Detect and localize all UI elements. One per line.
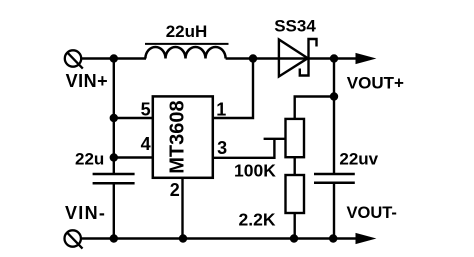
svg-text:22uH: 22uH <box>166 22 208 41</box>
junction pin4 <box>110 153 118 161</box>
junction B (SW node) <box>249 54 257 62</box>
wire pin 5 <box>114 117 153 119</box>
wire pin 4 <box>114 156 153 158</box>
arrow VOUT+ <box>356 54 375 64</box>
svg-text:SS34: SS34 <box>274 17 316 36</box>
junction bottom VOUT- <box>329 234 337 242</box>
wire pin 3 to feedback tap <box>213 139 275 158</box>
resistor R2 2.2K <box>286 175 305 213</box>
junction C (VOUT+ node) <box>330 54 338 62</box>
svg-text:VOUT+: VOUT+ <box>347 74 404 93</box>
junction bottom pin2 <box>179 234 187 242</box>
junction feedback top <box>330 92 338 100</box>
wire left vertical upper <box>113 59 115 174</box>
wire to VOUT+ arrow <box>334 57 357 59</box>
diode D1 schottky cathode bar <box>300 39 317 76</box>
op-amp U1 MT3608 body <box>153 96 213 177</box>
svg-text:MT3608: MT3608 <box>166 100 188 173</box>
wire pin 2 down <box>181 178 183 239</box>
wire top rail left <box>82 57 146 59</box>
wire right vertical lower <box>333 183 335 239</box>
junction bottom cap22u <box>110 234 118 242</box>
svg-text:5: 5 <box>141 100 151 120</box>
wire R1 to R2 <box>294 157 296 175</box>
wire right vertical upper <box>333 59 335 174</box>
svg-text:22uv: 22uv <box>339 149 378 168</box>
svg-text:2: 2 <box>170 180 180 200</box>
terminal VIN- <box>65 230 83 248</box>
wire bottom rail <box>81 237 357 239</box>
inductor L1 <box>145 47 225 59</box>
wire inductor to diode <box>226 57 279 59</box>
capacitor C2 22uv plates <box>314 174 355 183</box>
svg-text:2.2K: 2.2K <box>239 209 276 229</box>
wire left vertical lower <box>113 183 115 238</box>
svg-text:3: 3 <box>217 138 227 158</box>
svg-text:VIN-: VIN- <box>65 203 106 223</box>
wire R1 top to VOUT node <box>295 97 334 119</box>
svg-text:1: 1 <box>216 100 226 120</box>
svg-text:100K: 100K <box>234 161 276 181</box>
wire through diode <box>279 57 334 59</box>
wire SW node down to pin 1 <box>213 59 253 119</box>
arrow VOUT- <box>356 234 375 244</box>
capacitor C1 22u plates <box>93 174 135 183</box>
resistor R1 100K <box>286 119 305 157</box>
junction pin5 <box>110 114 118 122</box>
svg-text:4: 4 <box>141 134 151 154</box>
diode D1 SS34 triangle <box>279 40 308 77</box>
svg-text:VOUT-: VOUT- <box>347 204 397 222</box>
terminal VIN+ <box>65 50 83 68</box>
wire R2 bottom <box>294 213 296 239</box>
junction bottom R2 <box>290 234 298 242</box>
svg-text:22u: 22u <box>75 150 104 169</box>
svg-text:VIN+: VIN+ <box>66 71 109 91</box>
junction top-left <box>110 54 118 62</box>
inductor bar <box>145 43 229 45</box>
feedback tap bar <box>264 138 285 140</box>
